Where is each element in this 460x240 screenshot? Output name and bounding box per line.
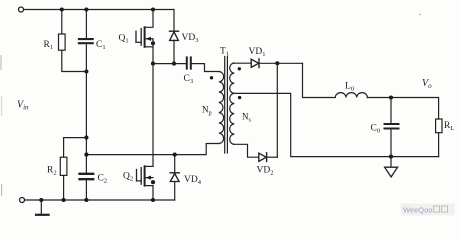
node bottom rail Q2 source junction: [151, 198, 155, 202]
node top rail R1 junction: [60, 7, 64, 11]
wire C0 bottom lead: [390, 130, 392, 157]
wire RL bottom lead: [438, 133, 440, 157]
node output ground junction: [389, 155, 393, 159]
Q1 gate bar: [140, 29, 142, 46]
wire C0 top lead: [390, 98, 392, 124]
node VD3 anode junction: [172, 62, 176, 66]
scan artifact marks (left edge): [0, 55, 3, 196]
svg-text:Vo: Vo: [422, 78, 432, 90]
capacitor C3: [187, 57, 191, 68]
Q1 body lead with arrow: [145, 38, 153, 40]
node divider primary-return junction: [84, 153, 88, 157]
wire VD3 bottom lead: [173, 40, 175, 63]
Q1 channel bar: [144, 27, 146, 47]
input terminal top: [19, 7, 24, 12]
node Q2 body-source tie: [151, 180, 155, 184]
transformer primary winding Np: [219, 72, 224, 144]
node R1/C1 bottom junction: [84, 69, 88, 73]
wire VD4 top lead: [174, 155, 176, 173]
svg-text:C0: C0: [371, 124, 381, 135]
Q2 gate terminal tick: [136, 170, 138, 181]
node midpoint C3 junction: [151, 62, 155, 66]
wire VD2 cathode to rectifier vertical: [267, 156, 278, 158]
node Ns upper polarity dot: [238, 67, 241, 70]
wire secondary bottom to VD2: [234, 144, 258, 157]
transistor Q1: [136, 10, 155, 47]
Q2 gate bar: [140, 168, 142, 185]
svg-text:WeeQoo: WeeQoo: [403, 206, 432, 215]
transistor Q2: [137, 166, 156, 200]
VD3 cathode bar: [170, 30, 179, 32]
svg-text:VD1: VD1: [249, 47, 266, 58]
wire Q1 source lead: [145, 46, 153, 48]
svg-text:C1: C1: [96, 40, 106, 51]
node bottom rail ground junction: [39, 198, 43, 202]
transformer T1 core: [224, 57, 226, 154]
svg-text:Q2: Q2: [123, 172, 133, 183]
capacitor C1: [79, 39, 93, 43]
wire VD3 top lead from rail: [173, 10, 175, 32]
svg-text:VD4: VD4: [184, 175, 202, 186]
node bottom rail C2 junction: [84, 198, 88, 202]
VD4 cathode bar: [170, 172, 179, 174]
svg-text:RL: RL: [444, 121, 454, 132]
svg-text:Ns: Ns: [242, 112, 252, 124]
ground output (open triangle): [390, 157, 392, 168]
VD4 triangle: [170, 174, 179, 182]
wire Q2 source lead: [145, 186, 153, 200]
wire Q2 drain lead: [145, 165, 153, 167]
capacitor C0: [385, 124, 399, 129]
node top rail C1 junction: [84, 7, 88, 11]
svg-text:C2: C2: [98, 174, 108, 185]
node L0 C0 junction: [389, 95, 393, 99]
diode VD1: [251, 59, 259, 68]
wire Q1 drain lead: [145, 10, 153, 28]
wire Q1 gate lead: [136, 41, 141, 43]
wire R2 top lead: [64, 138, 87, 158]
input terminal bottom: [20, 198, 25, 203]
transformer secondary winding Ns upper: [230, 63, 235, 93]
wire midpoint to C3: [153, 63, 186, 65]
svg-text:VD3: VD3: [182, 33, 199, 44]
Q2 body lead with arrow: [145, 177, 153, 179]
node Q1 body-source tie: [151, 41, 155, 45]
wire top rail: [24, 9, 174, 11]
diode VD3: [170, 10, 179, 66]
node rectifier output junction: [275, 61, 279, 65]
node bottom rail R2 junction: [62, 198, 66, 202]
svg-text:Vin: Vin: [17, 100, 29, 112]
watermark WeeQoo: [401, 204, 455, 216]
resistor RL: [436, 119, 442, 133]
diode VD4: [170, 155, 179, 200]
VD3 triangle: [170, 32, 179, 41]
wire R1 bottom lead to C1 branch: [62, 50, 87, 71]
transformer secondary winding Ns lower: [230, 93, 235, 144]
wire C1 top lead: [85, 10, 87, 39]
capacitor C2: [80, 174, 94, 179]
Q2 channel bar: [144, 166, 146, 185]
svg-text:C3: C3: [184, 74, 194, 85]
Q1 gate terminal tick: [135, 31, 137, 42]
wire bottom rail: [25, 199, 175, 201]
node Np polarity dot: [210, 76, 213, 79]
node Ns lower polarity dot: [238, 96, 241, 99]
wire L0 to output: [367, 98, 438, 120]
svg-text:Np: Np: [202, 105, 212, 117]
svg-text:Q1: Q1: [119, 34, 129, 45]
ground input (bar): [40, 200, 42, 214]
inductor L0: [303, 63, 368, 97]
wire C3 to primary top: [192, 64, 219, 72]
node divider R2 branch junction: [84, 136, 88, 140]
wire C2 bottom lead: [85, 180, 87, 200]
svg-text:L0: L0: [345, 82, 354, 93]
wire VD1 cathode to rectifier node: [259, 62, 303, 64]
node primary-return VD4 junction: [173, 153, 177, 157]
svg-text:R2: R2: [47, 166, 57, 177]
wire secondary top to VD1: [234, 62, 251, 64]
resistor R1: [59, 34, 66, 50]
svg-text:VD2: VD2: [257, 166, 274, 177]
wire R2 bottom lead: [63, 175, 65, 200]
wire Q2 gate lead: [137, 180, 142, 182]
wire half-bridge midpoint vertical (Q1 source to Q2 drain): [152, 39, 154, 167]
wire VD4 bottom lead: [174, 182, 176, 201]
diode VD2: [259, 153, 267, 162]
wire rectifier node down to VD2: [276, 63, 278, 157]
wire R1 top lead: [61, 10, 63, 35]
wire primary return (winding bottom to divider midpoint): [86, 144, 218, 155]
wire capacitor-divider midpoint vertical: [85, 45, 87, 173]
svg-text:R1: R1: [44, 40, 54, 51]
node top rail Q1 drain junction: [151, 7, 155, 11]
wire secondary center tap return: [234, 93, 438, 156]
resistor R2: [60, 157, 67, 175]
svg-text:T1: T1: [220, 47, 229, 58]
